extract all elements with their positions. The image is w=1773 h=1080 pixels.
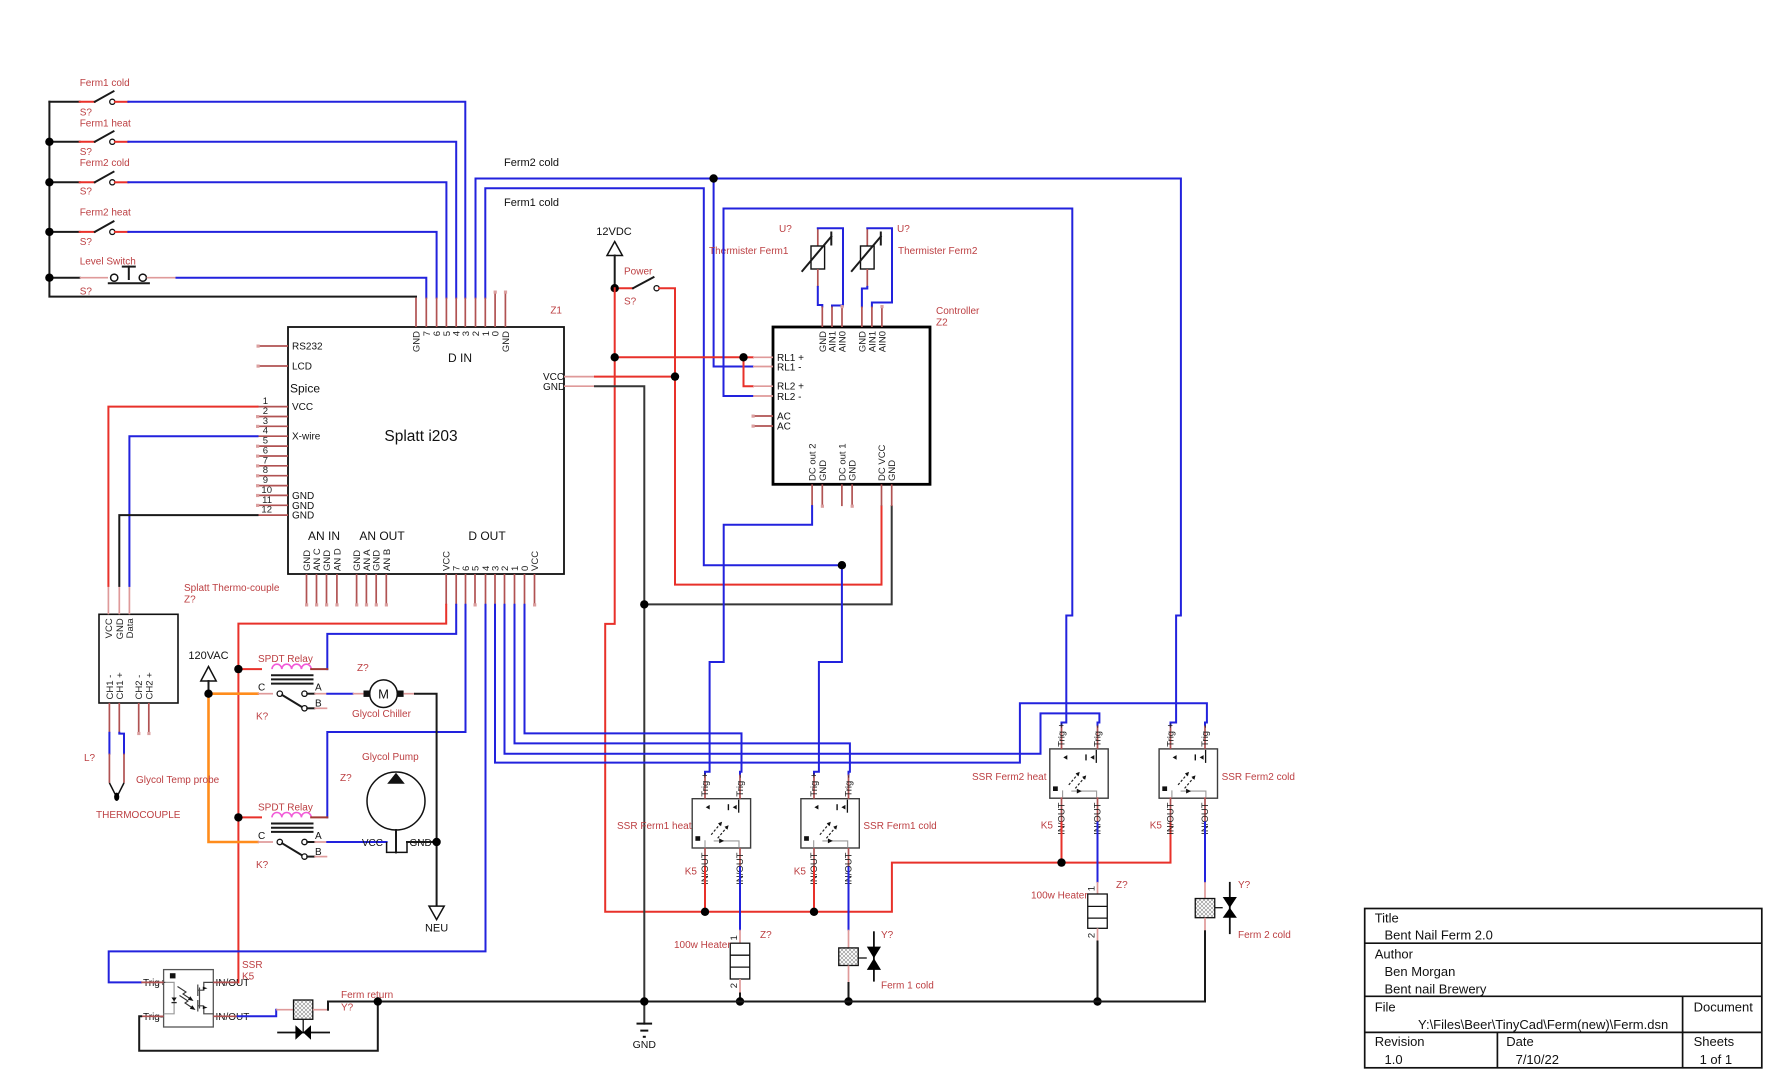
- svg-text:Y:\Files\Beer\TinyCad\Ferm(new: Y:\Files\Beer\TinyCad\Ferm(new)\Ferm.dsn: [1418, 1017, 1668, 1032]
- switch S? Ferm1 heat: [80, 119, 131, 159]
- pin DC out1: [841, 484, 843, 506]
- pin TC Data: [128, 586, 130, 614]
- SSR K5 Ferm2 cold: [1150, 722, 1295, 834]
- node RL1+/RL2+ junction: [739, 353, 747, 361]
- wire SSR1c out to valve1: [848, 867, 850, 929]
- svg-text:Power: Power: [624, 267, 653, 278]
- svg-text:2: 2: [1086, 933, 1097, 938]
- svg-text:K5: K5: [685, 867, 698, 878]
- svg-text:Ferm1 cold: Ferm1 cold: [504, 197, 559, 209]
- svg-text:RL2 -: RL2 -: [777, 392, 801, 403]
- valve Y? Ferm 1 cold: [839, 930, 934, 1002]
- pin 3: [258, 425, 289, 427]
- svg-text:GND: GND: [322, 550, 333, 571]
- svg-text:THERMOCOUPLE: THERMOCOUPLE: [96, 810, 181, 821]
- pin GND b1: [821, 484, 823, 506]
- wire stub row1: [49, 101, 79, 103]
- wire GND branch to controller: [644, 506, 891, 604]
- pin 2: [258, 416, 289, 418]
- pin ANIN ANC: [316, 574, 318, 605]
- node 120VAC junction: [204, 690, 212, 698]
- switch S? Power: [615, 267, 660, 308]
- svg-text:S?: S?: [80, 187, 93, 198]
- pin 6: [258, 455, 289, 457]
- svg-text:Ferm return: Ferm return: [341, 990, 393, 1001]
- node heater bus junction 3: [1057, 858, 1065, 866]
- svg-text:Z?: Z?: [184, 595, 196, 606]
- switch S? Ferm2 heat: [80, 208, 131, 249]
- svg-text:AIN0: AIN0: [877, 331, 888, 352]
- wire TC Data to Splatt pin4: [129, 436, 257, 586]
- wire DC out2 to SSR Ferm1 heat trig: [705, 506, 812, 774]
- pin AIN1 th2: [871, 307, 873, 328]
- wire TC GND to Splatt pin12: [119, 515, 257, 586]
- pin DIN GND right: [504, 292, 506, 327]
- node rail junction 4: [45, 228, 53, 236]
- wire DOUT2 to SSR Ferm2 heat trig-: [505, 605, 1100, 754]
- node rail junction heater2: [1093, 997, 1101, 1005]
- wire stub row5: [49, 277, 79, 279]
- resistor Z? 100w Heater 2: [1031, 880, 1128, 1002]
- wire motor return to NEU: [415, 694, 437, 906]
- pin 9: [258, 485, 289, 487]
- svg-text:1 of 1: 1 of 1: [1700, 1052, 1733, 1067]
- SSR K5 Ferm1 cold: [794, 772, 937, 885]
- svg-text:L?: L?: [84, 753, 96, 764]
- wire DC out1 to SSR Ferm1 cold trig: [814, 565, 842, 774]
- node rail junction gnd: [640, 997, 648, 1005]
- power symbol 120VAC: [188, 650, 228, 694]
- svg-text:GND: GND: [501, 331, 512, 352]
- svg-text:AN B: AN B: [382, 549, 393, 571]
- svg-text:12VDC: 12VDC: [596, 226, 632, 238]
- node rail junction 2: [45, 138, 53, 146]
- svg-text:2: 2: [729, 983, 740, 988]
- pin RS232: [258, 345, 288, 347]
- pushbutton S? Level Switch: [80, 257, 177, 298]
- pin DIN 4: [455, 298, 457, 327]
- svg-text:AN D: AN D: [332, 548, 343, 571]
- IC thermocouple interface: [99, 614, 178, 703]
- svg-text:D IN: D IN: [448, 351, 472, 365]
- svg-text:Author: Author: [1375, 947, 1414, 962]
- thermocouple probe L? Glycol Temp probe: [84, 753, 220, 821]
- pin RL1-: [753, 366, 773, 368]
- svg-text:K?: K?: [256, 860, 269, 871]
- pin 4 X-wire: [258, 435, 289, 437]
- pin DC VCC: [881, 484, 883, 506]
- pin AIN0 th2: [881, 307, 883, 328]
- svg-text:Level Switch: Level Switch: [80, 257, 136, 268]
- pin DOUT VCC1: [445, 574, 447, 605]
- svg-text:AIN0: AIN0: [838, 331, 849, 352]
- node relay1 coil junction: [234, 665, 242, 673]
- relay K? SPDT Relay 2: [238, 803, 327, 872]
- pin 5: [258, 445, 289, 447]
- wire CH1+ blue segment: [119, 733, 124, 754]
- pin ANOUT GND: [356, 574, 358, 605]
- pin CH2+: [148, 703, 150, 734]
- pin DIN 6: [436, 298, 438, 327]
- svg-text:AN IN: AN IN: [308, 529, 340, 543]
- svg-text:Bent nail Brewery: Bent nail Brewery: [1385, 982, 1487, 997]
- wire TC VCC to Splatt pin1: [108, 407, 257, 586]
- wire DOUT3 to SSR Ferm2 cold trig-: [495, 605, 1207, 763]
- svg-text:Glycol Pump: Glycol Pump: [362, 752, 419, 763]
- svg-text:SSR Ferm2 cold: SSR Ferm2 cold: [1222, 772, 1295, 783]
- node heater bus junction 2: [810, 908, 818, 916]
- svg-text:Ferm2 cold: Ferm2 cold: [504, 157, 559, 169]
- svg-text:C: C: [258, 683, 265, 694]
- svg-text:S?: S?: [80, 287, 93, 298]
- wire DOUT1 to SSR Ferm1 cold trig-: [515, 605, 850, 775]
- wire DOUT6 to relay2 coil: [327, 605, 465, 818]
- wire stub row4: [49, 231, 79, 233]
- pin RL2-: [753, 395, 773, 397]
- wire relay2 A to pump VCC: [327, 841, 386, 843]
- SSR K5 Ferm1 heat: [617, 772, 751, 885]
- wire sw2 to DIN pin4: [128, 142, 456, 298]
- wire level switch to DIN pin7: [177, 278, 427, 298]
- wire pump GND to neutral: [407, 841, 437, 843]
- svg-text:Z2: Z2: [936, 318, 948, 329]
- wire SSR1h out to heater bus: [704, 867, 706, 911]
- svg-text:S?: S?: [80, 147, 93, 158]
- svg-text:Ferm 1 cold: Ferm 1 cold: [881, 981, 934, 992]
- wire RL1+ stub link: [744, 356, 754, 358]
- svg-text:K?: K?: [256, 712, 269, 723]
- svg-text:C: C: [258, 831, 265, 842]
- pin TC VCC: [107, 586, 109, 614]
- svg-text:120VAC: 120VAC: [188, 650, 228, 662]
- svg-text:5: 5: [471, 566, 482, 571]
- pin DIN 3: [464, 298, 466, 327]
- pin DIN 1: [484, 298, 486, 327]
- svg-text:M: M: [378, 687, 389, 702]
- wire 120VAC to relay1 C: [209, 692, 258, 695]
- node GND branch junction: [640, 600, 648, 608]
- svg-text:VCC: VCC: [362, 838, 383, 849]
- svg-text:Splatt i203: Splatt i203: [384, 428, 457, 445]
- pin VCC right: [564, 376, 595, 378]
- svg-text:File: File: [1375, 999, 1396, 1014]
- pin LCD: [258, 365, 288, 367]
- wire thermistor1 top to AIN1: [818, 228, 843, 306]
- pin 1 VCC: [258, 406, 289, 408]
- wire switched 12V to DC VCC: [659, 288, 881, 584]
- wire thermistor1 bottom to GND: [818, 287, 823, 307]
- IC Z2 Controller: [773, 327, 930, 484]
- svg-text:Trig +: Trig +: [809, 772, 820, 797]
- pin DIN 7: [425, 298, 427, 327]
- pin ANOUT ANB: [385, 574, 387, 605]
- wire RL2- net: [724, 209, 1073, 726]
- pin ANIN GND: [306, 574, 308, 605]
- thermistor U? Ferm2: [852, 224, 978, 287]
- pin opto trig-: [141, 1015, 163, 1017]
- node rail junction 5: [45, 274, 53, 282]
- motor M Glycol Chiller: [352, 663, 415, 720]
- pin GND b3: [891, 484, 893, 506]
- switch S? Ferm1 cold: [80, 78, 130, 119]
- svg-text:Ferm2 cold: Ferm2 cold: [80, 158, 130, 169]
- svg-text:Z?: Z?: [340, 773, 352, 784]
- svg-text:S?: S?: [80, 108, 93, 119]
- svg-text:Y?: Y?: [341, 1003, 354, 1014]
- pin DOUT 5: [474, 574, 476, 605]
- svg-text:Thermister Ferm2: Thermister Ferm2: [898, 246, 978, 257]
- svg-text:CH2 +: CH2 +: [144, 672, 155, 700]
- pin DIN 0: [494, 292, 496, 327]
- pump Z? Glycol Pump: [340, 752, 432, 852]
- svg-text:K5: K5: [794, 867, 807, 878]
- svg-text:Trig-: Trig-: [143, 1012, 163, 1023]
- svg-text:VCC: VCC: [292, 402, 313, 413]
- svg-text:Trig +: Trig +: [1166, 722, 1177, 747]
- svg-text:Z?: Z?: [1116, 880, 1128, 891]
- svg-text:Z1: Z1: [550, 306, 562, 317]
- svg-text:1: 1: [1086, 886, 1097, 891]
- node rail junction 3: [45, 178, 53, 186]
- pin ANIN AND: [336, 574, 338, 605]
- svg-text:Ferm1 cold: Ferm1 cold: [80, 78, 130, 89]
- node rail junction heater1: [736, 997, 744, 1005]
- pin DIN 5: [445, 298, 447, 327]
- node rail junction ferm return: [374, 997, 382, 1005]
- node heater bus junction 1: [701, 908, 709, 916]
- svg-text:Ben Morgan: Ben Morgan: [1385, 964, 1456, 979]
- svg-text:K5: K5: [1041, 821, 1054, 832]
- svg-text:Ferm1 heat: Ferm1 heat: [80, 119, 131, 130]
- node power junction: [611, 284, 619, 292]
- node 12V-RL junction: [611, 353, 619, 361]
- svg-text:IN/OUT: IN/OUT: [1166, 802, 1177, 834]
- wire opto out to Ferm return valve: [238, 1010, 277, 1017]
- pin opto out top: [213, 981, 237, 983]
- thermistor U? Ferm1: [709, 224, 831, 287]
- node Ferm2cold junction: [709, 174, 717, 182]
- svg-text:7/10/22: 7/10/22: [1516, 1052, 1559, 1067]
- svg-text:GND: GND: [887, 460, 898, 481]
- wire RL1+ branch: [615, 357, 753, 386]
- svg-text:K5: K5: [1150, 821, 1163, 832]
- wire VCC pin to switched rail: [595, 376, 675, 378]
- node pump GND junction: [432, 838, 440, 846]
- svg-text:Z?: Z?: [760, 930, 772, 941]
- pin 10: [258, 494, 289, 496]
- wire SSR1c out to heater bus: [813, 867, 815, 911]
- svg-text:S?: S?: [624, 297, 637, 308]
- pin DIN GND left: [415, 298, 417, 327]
- pin ANOUT ANA: [365, 574, 367, 605]
- pin CH1-: [108, 703, 110, 733]
- svg-text:U?: U?: [897, 224, 910, 235]
- pin RL1+: [753, 356, 773, 358]
- switch S? Ferm2 cold: [80, 158, 130, 198]
- svg-text:Data: Data: [125, 618, 136, 639]
- pin DOUT 2: [504, 574, 506, 605]
- svg-text:GND: GND: [543, 382, 565, 393]
- pin DOUT 4: [485, 574, 487, 605]
- wire sw1 to DIN pin3: [128, 102, 465, 298]
- pin CH1+: [118, 703, 120, 733]
- pin GND b2: [851, 484, 853, 506]
- wire DOUT0 to SSR Ferm1 heat trig-: [525, 605, 742, 775]
- pin DOUT 3: [494, 574, 496, 605]
- left bus rail: [49, 102, 416, 297]
- svg-text:100w Heater: 100w Heater: [1031, 891, 1088, 902]
- svg-text:A: A: [315, 683, 322, 694]
- wire relay1 A to motor: [327, 693, 352, 695]
- pin GND right: [564, 385, 595, 387]
- svg-text:Ferm 2 cold: Ferm 2 cold: [1238, 930, 1291, 941]
- pin DIN 2: [475, 298, 477, 327]
- wire GND pin net: [595, 386, 644, 1023]
- svg-text:GND: GND: [633, 1039, 657, 1051]
- svg-text:A: A: [315, 831, 322, 842]
- relay K? SPDT Relay 1: [238, 654, 327, 723]
- wire stub row3: [49, 181, 79, 183]
- wire SSR2h out to heater bus: [1061, 823, 1063, 863]
- pin CH2-: [138, 703, 140, 734]
- svg-text:SSR Ferm1 cold: SSR Ferm1 cold: [863, 821, 936, 832]
- pin 8: [258, 475, 289, 477]
- svg-text:Y?: Y?: [1238, 880, 1251, 891]
- ground GND symbol: [633, 1024, 657, 1051]
- pin 12 GND: [258, 514, 289, 516]
- wire 12V rail down to heater bus: [605, 288, 1170, 912]
- svg-text:CH1 +: CH1 +: [115, 672, 126, 700]
- svg-text:Bent Nail Ferm 2.0: Bent Nail Ferm 2.0: [1385, 928, 1493, 943]
- wire DOUT4 to SSR K5 trig: [109, 605, 486, 983]
- svg-text:SPDT Relay: SPDT Relay: [258, 654, 313, 665]
- wire thermistor2 top to AIN1: [867, 228, 892, 306]
- svg-text:LCD: LCD: [292, 362, 312, 373]
- svg-text:RS232: RS232: [292, 342, 323, 353]
- svg-text:NEU: NEU: [425, 923, 448, 935]
- svg-text:Trig -: Trig -: [1200, 725, 1211, 747]
- pin DOUT VCC2: [534, 574, 536, 605]
- pin 11: [258, 504, 289, 506]
- wire sw4 to DIN pin6: [128, 232, 436, 298]
- pin ANIN GND2: [326, 574, 328, 605]
- svg-text:12: 12: [261, 505, 272, 516]
- svg-text:Trig +: Trig +: [1057, 722, 1068, 747]
- node DC out1 junction: [838, 561, 846, 569]
- svg-text:U?: U?: [779, 224, 792, 235]
- svg-text:Title: Title: [1375, 911, 1399, 926]
- wire opto trig- to ground rail: [139, 1002, 378, 1051]
- svg-text:Spice: Spice: [290, 382, 320, 396]
- svg-text:Trig +: Trig +: [700, 772, 711, 797]
- svg-text:RL1 -: RL1 -: [777, 363, 801, 374]
- wire SSR1h out to heater1: [739, 867, 741, 929]
- wire DOUT VCC to relay rail: [238, 605, 446, 983]
- wire RL1- branch: [714, 179, 753, 367]
- svg-text:Controller: Controller: [936, 306, 980, 317]
- svg-text:1.0: 1.0: [1385, 1052, 1403, 1067]
- svg-text:Trig -: Trig -: [844, 775, 855, 797]
- svg-text:Revision: Revision: [1375, 1034, 1425, 1049]
- svg-text:S?: S?: [80, 237, 93, 248]
- svg-text:Glycol Temp probe: Glycol Temp probe: [136, 775, 220, 786]
- wire net Ferm2 cold: [476, 179, 1181, 726]
- svg-text:Trig -: Trig -: [735, 775, 746, 797]
- optocoupler SSR K5 bottom: [143, 960, 263, 1027]
- svg-text:VCC: VCC: [530, 551, 541, 571]
- pin RL2+: [753, 385, 773, 387]
- pin opto out bottom: [213, 1015, 237, 1017]
- wire SSR2h out to heater2: [1097, 823, 1099, 882]
- svg-text:GND: GND: [848, 460, 859, 481]
- pin AIN0 th1: [841, 307, 843, 328]
- svg-text:Ferm2 heat: Ferm2 heat: [80, 208, 131, 219]
- pin DOUT 0: [524, 574, 526, 605]
- svg-text:GND: GND: [410, 838, 432, 849]
- wire SSR2c out to valve2: [1204, 823, 1206, 882]
- valve Y? Ferm 2 cold: [1195, 880, 1291, 1002]
- pin opto trig+: [141, 981, 163, 983]
- pin TC GND: [118, 586, 120, 614]
- svg-text:Z?: Z?: [357, 663, 369, 674]
- svg-text:Date: Date: [1506, 1034, 1533, 1049]
- svg-text:IN/OUT: IN/OUT: [216, 1012, 250, 1023]
- svg-text:X-wire: X-wire: [292, 432, 321, 443]
- pin DC out2: [811, 484, 813, 506]
- svg-text:AN OUT: AN OUT: [359, 529, 405, 543]
- pin DOUT 1: [514, 574, 516, 605]
- svg-text:Trig+: Trig+: [143, 978, 166, 989]
- wire CH1- blue segment: [108, 733, 110, 754]
- svg-text:SSR Ferm1 heat: SSR Ferm1 heat: [617, 821, 692, 832]
- pin AC 1: [753, 415, 773, 417]
- svg-text:VCC: VCC: [104, 618, 115, 638]
- node relay2 coil junction: [234, 813, 242, 821]
- svg-text:Sheets: Sheets: [1694, 1034, 1735, 1049]
- svg-text:Document: Document: [1694, 999, 1754, 1014]
- wire DOUT7 to relay1 coil: [327, 605, 456, 669]
- resistor Z? 100w Heater 1: [674, 930, 772, 1002]
- SSR K5 Ferm2 heat: [972, 722, 1108, 834]
- svg-text:K5: K5: [242, 972, 255, 983]
- svg-text:Splatt Thermo-couple: Splatt Thermo-couple: [184, 583, 280, 594]
- pin DOUT 6: [465, 574, 467, 605]
- svg-text:Thermister Ferm1: Thermister Ferm1: [709, 246, 789, 257]
- valve Y? Ferm return: [276, 990, 393, 1040]
- svg-text:Y?: Y?: [881, 930, 894, 941]
- wire bottom ground rail: [328, 1001, 1205, 1003]
- pin GND th2: [861, 307, 863, 328]
- IC Z1 Splatt i203: [288, 327, 565, 574]
- wire 120VAC to relay2 C: [209, 694, 258, 842]
- pin DOUT 7: [455, 574, 457, 605]
- wire net Ferm1 cold: [485, 188, 842, 565]
- wire stub row2: [49, 141, 79, 143]
- pin AIN1 th1: [831, 307, 833, 328]
- svg-text:AC: AC: [777, 422, 791, 433]
- pin 7: [258, 465, 289, 467]
- title block: [1365, 909, 1762, 1068]
- svg-text:100w Heater: 100w Heater: [674, 940, 731, 951]
- svg-text:SSR: SSR: [242, 960, 263, 971]
- wire thermistor2 bottom to GND: [862, 287, 867, 307]
- pin ANOUT GND2: [375, 574, 377, 605]
- wire sw3 to DIN pin5: [128, 182, 446, 297]
- power symbol 12VDC: [596, 226, 632, 288]
- svg-text:GND: GND: [292, 511, 314, 522]
- node VCC junction: [671, 372, 679, 380]
- svg-text:D OUT: D OUT: [468, 529, 506, 543]
